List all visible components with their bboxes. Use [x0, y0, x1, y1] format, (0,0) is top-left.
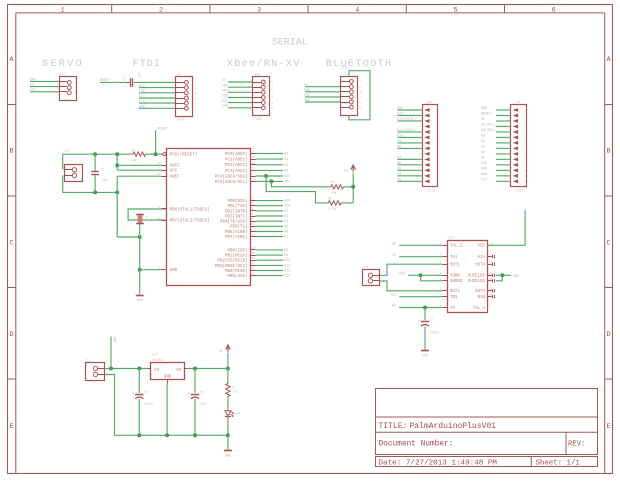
- svg-text:PC5(ADC5/SCL): PC5(ADC5/SCL): [215, 180, 248, 185]
- svg-text:FTDI: FTDI: [133, 58, 161, 70]
- svg-text:+5V: +5V: [63, 149, 69, 153]
- svg-text:3: 3: [419, 120, 421, 123]
- junction AVCC branch: [115, 152, 119, 156]
- svg-text:PB3(MOSI/OC2): PB3(MOSI/OC2): [215, 264, 248, 269]
- svg-text:VCC: VCC: [170, 170, 178, 174]
- capacitor C1 input bulk: [138, 369, 140, 393]
- junction cap C5 bottom: [93, 190, 97, 194]
- svg-text:PC3(ADC3): PC3(ADC3): [225, 169, 248, 174]
- wires MCU right group nets: [256, 153, 284, 155]
- svg-text:D3: D3: [392, 294, 396, 298]
- svg-text:D5: D5: [397, 168, 401, 172]
- svg-text:GND: GND: [222, 84, 228, 88]
- wires MCU right group nets: [256, 249, 284, 251]
- motor driver left pin stubs: [443, 245, 448, 247]
- ground below C7: [421, 350, 429, 352]
- svg-text:GND: GND: [137, 299, 143, 303]
- svg-text:1: 1: [158, 151, 160, 154]
- svg-text:11: 11: [489, 288, 493, 291]
- svg-text:C1: C1: [144, 391, 148, 395]
- svg-text:10: 10: [157, 217, 161, 220]
- svg-text:E: E: [607, 423, 611, 431]
- svg-text:D13: D13: [284, 275, 290, 279]
- svg-text:IC4: IC4: [448, 236, 454, 240]
- svg-text:OUT4: OUT4: [475, 264, 485, 268]
- svg-text:78L05Z: 78L05Z: [151, 359, 163, 363]
- pin bubble PC6/RESET pin1: [163, 153, 166, 156]
- wires BLUETOOTH rows: [305, 86, 341, 88]
- svg-text:A4(SDA): A4(SDA): [481, 128, 496, 133]
- svg-text:TAL_2: TAL_2: [450, 245, 463, 249]
- svg-text:D4: D4: [284, 220, 288, 224]
- svg-text:SDA: SDA: [284, 175, 291, 179]
- junction C2 bottom: [193, 433, 197, 437]
- connector SV1 servo header: [60, 77, 77, 101]
- svg-text:14: 14: [506, 181, 510, 184]
- svg-text:4: 4: [507, 126, 509, 129]
- svg-text:JP3: JP3: [254, 72, 260, 76]
- svg-text:GND: GND: [304, 99, 310, 103]
- svg-text:26: 26: [252, 167, 256, 170]
- svg-text:TITLE:: TITLE:: [379, 422, 408, 431]
- svg-text:2: 2: [507, 115, 509, 118]
- junction driver gnd rows: [419, 273, 423, 277]
- svg-text:3: 3: [359, 91, 361, 94]
- svg-text:1: 1: [271, 81, 273, 84]
- svg-text:C: C: [607, 239, 611, 247]
- svg-text:TA1: TA1: [450, 256, 458, 260]
- svg-text:PD3(INT1): PD3(INT1): [225, 214, 248, 219]
- svg-text:C6: C6: [122, 77, 126, 81]
- svg-text:9: 9: [158, 206, 160, 209]
- svg-text:PC4(ADC4/SDA): PC4(ADC4/SDA): [215, 174, 248, 179]
- svg-text:23: 23: [252, 150, 256, 153]
- wire AREF row: [117, 175, 161, 177]
- svg-text:D: D: [10, 331, 14, 339]
- svg-text:D5: D5: [284, 225, 288, 229]
- svg-text:PB2(SS/OC1B): PB2(SS/OC1B): [217, 259, 247, 264]
- wire RESET vertical to 5V rail junction: [155, 130, 157, 154]
- svg-text:8: 8: [419, 148, 421, 151]
- svg-text:PD5(T1): PD5(T1): [230, 225, 248, 230]
- capacitor C6 reset coupling: [130, 78, 132, 87]
- wire driver VCC up right: [487, 210, 525, 245]
- svg-text:R1: R1: [131, 149, 135, 153]
- svg-text:3: 3: [194, 92, 196, 95]
- wire gnd rail to ground symbol: [227, 435, 229, 449]
- junction C1 top: [137, 367, 141, 371]
- connector JP7 breakout header: [511, 105, 527, 187]
- wire XTAL1 net: [128, 209, 167, 220]
- junction C1 bottom: [137, 433, 141, 437]
- wires MCU right group nets: [256, 200, 284, 202]
- junction battery vertical: [109, 367, 113, 371]
- svg-text:GND: GND: [30, 79, 36, 83]
- connector JP6 breakout header: [423, 105, 438, 187]
- svg-text:JP1: JP1: [176, 72, 182, 76]
- junction divider tap SDA row: [264, 174, 268, 178]
- svg-text:OUT2: OUT2: [450, 290, 460, 294]
- connector X1 battery input: [86, 363, 105, 381]
- wire power gnd rail: [115, 434, 228, 436]
- svg-text:9: 9: [507, 153, 509, 156]
- svg-text:XBEE: XBEE: [256, 117, 264, 121]
- svg-text:OUT1: OUT1: [450, 264, 460, 268]
- wire regulator gnd down: [166, 384, 168, 436]
- MCU right pin stubs group: [250, 153, 256, 155]
- svg-text:1: 1: [419, 109, 421, 112]
- svg-text:Q1: Q1: [145, 215, 149, 218]
- svg-text:1: 1: [359, 81, 361, 84]
- svg-text:5: 5: [271, 102, 273, 105]
- svg-text:4: 4: [419, 126, 421, 129]
- svg-text:4: 4: [359, 96, 361, 99]
- svg-text:100uF: 100uF: [144, 402, 154, 406]
- junction cap C5 top: [93, 152, 97, 156]
- svg-text:2: 2: [74, 86, 76, 89]
- svg-text:A1: A1: [481, 146, 485, 150]
- svg-text:8: 8: [158, 267, 160, 270]
- svg-text:TXD: TXD: [284, 205, 290, 209]
- wire gnd step to row5: [421, 275, 443, 281]
- svg-text:TXD: TXD: [139, 90, 145, 94]
- svg-text:15: 15: [252, 252, 256, 255]
- svg-text:18: 18: [252, 267, 256, 270]
- MCU left pin stubs: [162, 165, 168, 167]
- wire driver 5V to cap C7: [424, 308, 426, 321]
- svg-text:1: 1: [194, 82, 196, 85]
- wire OUT1 to motor pin1: [380, 264, 443, 275]
- svg-text:JP4: JP4: [342, 65, 348, 69]
- svg-text:D9: D9: [284, 254, 288, 258]
- wire gnd to crystal stem: [117, 236, 140, 238]
- svg-text:B: B: [10, 148, 14, 156]
- svg-text:SERIAL: SERIAL: [272, 38, 308, 49]
- svg-text:OUT3: OUT3: [475, 290, 485, 294]
- svg-text:1: 1: [507, 109, 509, 112]
- svg-text:PD2(INT0): PD2(INT0): [225, 209, 248, 214]
- svg-text:SHIELD1: SHIELD1: [468, 275, 486, 279]
- svg-text:GND: GND: [397, 107, 403, 111]
- svg-text:16: 16: [252, 257, 256, 260]
- svg-text:1: 1: [61, 7, 65, 15]
- svg-text:15: 15: [489, 254, 493, 257]
- svg-text:PB6(XTAL1/TOSC1): PB6(XTAL1/TOSC1): [170, 207, 210, 212]
- wire power connector pin2 down to gnd rail: [62, 176, 64, 193]
- svg-text:19: 19: [252, 272, 256, 275]
- svg-text:5: 5: [194, 102, 196, 105]
- op-amp U3 regulator IC3 body: [151, 363, 185, 380]
- svg-text:GND: GND: [481, 107, 487, 111]
- svg-text:VO: VO: [176, 369, 182, 373]
- svg-text:D8: D8: [284, 249, 288, 253]
- junction AVCC row: [115, 163, 119, 167]
- svg-text:1X14: 1X14: [427, 188, 435, 192]
- wire 5V rail to R1: [63, 153, 133, 155]
- svg-text:C7: C7: [430, 318, 434, 322]
- wire to gnd symbol below crystal: [139, 270, 141, 294]
- svg-text:SHDN: SHDN: [450, 275, 460, 279]
- frame column ticks top: [112, 5, 505, 13]
- svg-text:+: +: [132, 393, 134, 397]
- svg-text:DTR: DTR: [222, 105, 229, 109]
- wire driver right gnd: [496, 274, 511, 276]
- svg-text:A2: A2: [284, 164, 288, 168]
- svg-text:PC1(ADC1): PC1(ADC1): [225, 158, 248, 163]
- svg-text:11: 11: [506, 164, 510, 167]
- svg-text:10: 10: [489, 294, 493, 297]
- title block outer box: [376, 389, 598, 455]
- svg-text:RXD: RXD: [284, 200, 290, 204]
- svg-text:R3: R3: [232, 386, 236, 389]
- svg-text:1X14: 1X14: [516, 188, 524, 192]
- svg-text:D6: D6: [397, 162, 401, 166]
- svg-text:D6: D6: [284, 231, 288, 235]
- svg-text:9: 9: [419, 153, 421, 156]
- svg-text:PD4(T0/XCK): PD4(T0/XCK): [220, 220, 248, 225]
- svg-text:XBee/RN-XV: XBee/RN-XV: [227, 58, 301, 70]
- svg-text:5: 5: [252, 213, 254, 216]
- svg-text:D7: D7: [397, 157, 401, 161]
- svg-text:D: D: [607, 331, 611, 339]
- wire divider branch lower: [266, 176, 328, 203]
- wire driver in1: [399, 244, 442, 246]
- svg-text:GND: GND: [513, 275, 519, 279]
- svg-text:REV:: REV:: [568, 440, 585, 448]
- svg-text:PalmArduinoPlusV01: PalmArduinoPlusV01: [410, 422, 497, 431]
- svg-text:6: 6: [194, 108, 196, 111]
- svg-text:VI: VI: [154, 369, 160, 373]
- junction divider tap SCL row: [269, 179, 273, 183]
- svg-text:10K: 10K: [131, 159, 137, 163]
- svg-text:16MHz: 16MHz: [145, 220, 154, 223]
- svg-text:PB1(OC1A): PB1(OC1A): [225, 254, 248, 259]
- svg-text:TB1: TB1: [450, 296, 458, 300]
- svg-text:A0: A0: [284, 153, 288, 157]
- svg-text:TXD: TXD: [481, 162, 487, 166]
- svg-text:B1B: B1B: [478, 296, 486, 300]
- op-amp U2 motor driver IC4 body: [448, 241, 488, 313]
- svg-text:PD1(TXD): PD1(TXD): [227, 204, 247, 209]
- wire gnd drop to crystal net: [116, 192, 118, 237]
- svg-text:PC0(ADC0): PC0(ADC0): [225, 152, 248, 157]
- svg-text:D2: D2: [284, 210, 288, 214]
- svg-text:.1uF: .1uF: [137, 71, 141, 79]
- wire GND to driver shdn: [408, 274, 443, 276]
- svg-text:17: 17: [252, 262, 256, 265]
- svg-text:VCC: VCC: [478, 245, 486, 249]
- svg-text:10uF: 10uF: [200, 402, 208, 406]
- no-connect stubs driver right rows: [487, 256, 492, 258]
- LED1 power indicator: [225, 411, 231, 416]
- svg-text:4: 4: [194, 97, 196, 100]
- svg-text:SHIELD2: SHIELD2: [468, 280, 486, 284]
- wire 5V node to R3: [227, 369, 229, 384]
- svg-text:5: 5: [359, 101, 361, 104]
- wire regulator output to 5V: [187, 368, 228, 370]
- svg-text:4: 4: [271, 97, 273, 100]
- title block date row box: [376, 457, 598, 467]
- svg-text:A3: A3: [481, 135, 485, 139]
- svg-text:D9: D9: [397, 140, 401, 144]
- wire battery minus to gnd rail: [105, 375, 115, 436]
- wires JP7 rows: [496, 109, 511, 111]
- svg-text:3: 3: [257, 7, 261, 15]
- wire servo nets: [30, 81, 59, 83]
- wire gnd rail: [63, 191, 117, 193]
- svg-text:12: 12: [417, 170, 421, 173]
- wire bluetooth loop pin1 to pin6: [349, 71, 370, 120]
- svg-text:14: 14: [489, 261, 493, 264]
- svg-text:TAL_A: TAL_A: [473, 307, 486, 311]
- ground power section: [224, 450, 232, 452]
- wire R4 to 5V node: [344, 186, 354, 188]
- svg-text:21: 21: [157, 173, 161, 176]
- svg-text:IC3: IC3: [151, 354, 157, 358]
- svg-text:7: 7: [419, 142, 421, 145]
- svg-text:3: 3: [74, 91, 76, 94]
- svg-text:16: 16: [489, 242, 493, 245]
- junction reset net: [154, 152, 158, 156]
- svg-text:RTS: RTS: [222, 100, 228, 104]
- svg-text:2: 2: [252, 197, 254, 200]
- svg-text:PD6(AIN0): PD6(AIN0): [225, 230, 248, 235]
- svg-text:RAW: RAW: [481, 173, 488, 177]
- svg-text:PB4(MISO): PB4(MISO): [225, 269, 248, 274]
- svg-text:D12: D12: [284, 270, 290, 274]
- wire MCU gnd pin: [140, 269, 162, 271]
- wire driver in3: [399, 296, 442, 298]
- svg-text:13: 13: [506, 175, 510, 178]
- junction driver 5V cap: [423, 306, 427, 310]
- supply +5V arrow mid sheet: [351, 165, 356, 172]
- wire RESET to C6: [100, 81, 129, 83]
- svg-text:4: 4: [252, 208, 254, 211]
- svg-text:D7: D7: [284, 236, 288, 240]
- svg-text:GND: GND: [139, 106, 145, 110]
- svg-text:JP6: JP6: [426, 100, 432, 104]
- svg-text:PD0(RXD): PD0(RXD): [227, 199, 247, 204]
- svg-text:24: 24: [252, 156, 256, 159]
- ground below crystal net: [136, 295, 144, 297]
- svg-text:RXD: RXD: [304, 89, 310, 93]
- svg-text:10: 10: [417, 159, 421, 162]
- svg-text:6: 6: [552, 7, 556, 15]
- resistor R1 reset pullup: [133, 152, 146, 156]
- svg-text:12: 12: [252, 228, 256, 231]
- svg-text:25: 25: [252, 162, 256, 165]
- svg-text:12: 12: [489, 278, 493, 281]
- svg-text:.1uF: .1uF: [100, 178, 108, 182]
- svg-text:A1A: A1A: [478, 256, 486, 260]
- svg-text:11: 11: [252, 223, 256, 226]
- wire driver in2: [399, 256, 442, 258]
- wire AVCC VCC feed vertical: [116, 154, 118, 170]
- wire 5V arrow vertical: [227, 353, 229, 369]
- svg-text:2: 2: [159, 7, 163, 15]
- svg-text:SIG: SIG: [30, 89, 36, 93]
- capacitor C5 decoupling: [94, 154, 96, 171]
- MCU right pin stubs group: [250, 200, 256, 202]
- svg-text:D11(MOSI): D11(MOSI): [397, 128, 416, 133]
- svg-text:Sheet: 1/1: Sheet: 1/1: [536, 460, 581, 468]
- wire battery plus to regulator: [105, 368, 148, 370]
- svg-text:SV1: SV1: [59, 73, 65, 77]
- wire AREF down to gnd rail: [116, 176, 118, 192]
- svg-text:14: 14: [252, 247, 256, 250]
- svg-text:PC6(/RESET): PC6(/RESET): [170, 153, 198, 158]
- svg-text:BAT: BAT: [112, 337, 116, 343]
- connector JP3 XBee header: [253, 77, 270, 116]
- svg-text:BLUETOOTH: BLUETOOTH: [326, 58, 392, 70]
- junction regulator gnd rail: [165, 433, 169, 437]
- svg-text:TXD: TXD: [304, 94, 310, 98]
- svg-text:CTS: CTS: [139, 100, 145, 104]
- wire divider vertical to 5V arrow: [352, 173, 354, 203]
- svg-text:A3: A3: [284, 169, 288, 173]
- svg-text:PD7(AIN1): PD7(AIN1): [225, 235, 248, 240]
- connector JP1 FTDI header: [176, 77, 193, 117]
- svg-text:6: 6: [271, 107, 273, 110]
- svg-text:2: 2: [194, 87, 196, 90]
- svg-text:SHDN2: SHDN2: [450, 280, 463, 284]
- svg-text:5: 5: [453, 7, 457, 15]
- svg-text:28: 28: [252, 178, 256, 181]
- connector JP2 power input: [65, 165, 83, 182]
- wire R1 to reset pin: [146, 153, 163, 155]
- driver right gnd stubs: [487, 275, 492, 277]
- svg-text:PC2(ADC2): PC2(ADC2): [225, 163, 248, 168]
- svg-text:7: 7: [158, 167, 160, 170]
- svg-text:3: 3: [252, 203, 254, 206]
- svg-text:7: 7: [507, 142, 509, 145]
- svg-text:6: 6: [359, 106, 361, 109]
- wire battery plus vertical: [110, 337, 112, 369]
- svg-text:20: 20: [157, 162, 161, 165]
- svg-text:D4: D4: [397, 173, 401, 177]
- svg-text:RXD: RXD: [139, 85, 145, 89]
- wire OUT2 to motor pin2: [380, 281, 443, 291]
- svg-text:13: 13: [252, 233, 256, 236]
- junction led gnd rail: [226, 433, 230, 437]
- resistor R5: [328, 201, 341, 205]
- svg-text:JP7: JP7: [515, 100, 521, 104]
- wire crystal gnd down to MCU gnd pin row: [139, 237, 141, 270]
- svg-text:GND: GND: [398, 272, 404, 276]
- svg-text:14: 14: [417, 181, 421, 184]
- resistor R3 led: [226, 384, 230, 397]
- svg-text:X1: X1: [86, 359, 90, 363]
- svg-text:SCL: SCL: [284, 180, 290, 184]
- svg-text:D2: D2: [481, 157, 485, 161]
- svg-text:D13: D13: [397, 113, 403, 117]
- svg-text:6: 6: [252, 218, 254, 221]
- wire C7 to gnd: [424, 326, 426, 350]
- svg-text:13: 13: [417, 175, 421, 178]
- svg-text:A1: A1: [284, 158, 288, 162]
- regulator pin stubs: [148, 368, 151, 370]
- junction MCU gnd row: [138, 268, 142, 272]
- svg-text:D8: D8: [397, 146, 401, 150]
- svg-text:9: 9: [489, 305, 491, 308]
- svg-text:LED: LED: [234, 412, 240, 415]
- capacitor C2 output: [194, 369, 196, 393]
- wire AVCC row: [117, 164, 161, 166]
- svg-text:GND: GND: [170, 269, 178, 273]
- svg-text:R4: R4: [331, 180, 335, 184]
- junction driver right gnd: [500, 273, 504, 277]
- svg-text:11: 11: [417, 164, 421, 167]
